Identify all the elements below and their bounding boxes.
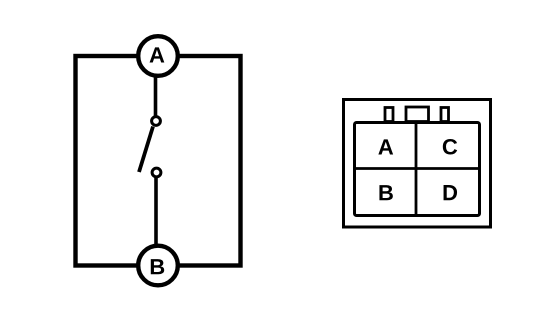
connector divider (vertical): [415, 122, 418, 216]
terminal C label: [443, 139, 457, 155]
connector housing outer shell: [344, 100, 491, 228]
connector lock tab center: [406, 107, 429, 122]
terminal A label: [378, 139, 393, 154]
switch S contact (upper terminal): [152, 117, 161, 126]
connector divider (horizontal): [354, 167, 480, 170]
wire (vertical from A to switch): [154, 75, 158, 117]
meter B (circle component B): [138, 246, 178, 286]
connector body (4-cavity block): [355, 123, 480, 216]
switch S contact (lower terminal): [152, 168, 161, 177]
connector lock tab right: [441, 108, 449, 122]
connector lock tab left: [385, 108, 393, 122]
terminal B label: [379, 185, 392, 200]
switch S lever (open blade): [139, 127, 153, 173]
wire loop (left circuit rectangle): [76, 56, 241, 266]
terminal D label: [444, 185, 458, 200]
meter A (circle component A): [138, 36, 178, 76]
wire (vertical from switch to B): [154, 177, 158, 247]
